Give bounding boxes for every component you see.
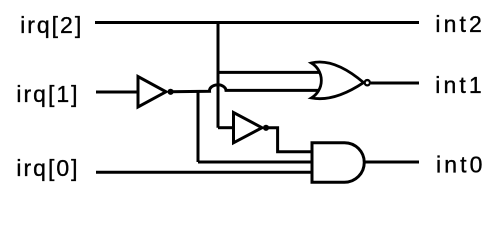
svg-text:irq[0]: irq[0]: [16, 155, 79, 181]
svg-text:int0: int0: [436, 151, 485, 177]
svg-text:int1: int1: [435, 72, 484, 98]
inverter U2 (middle): [234, 113, 270, 143]
wire U2 output to AND top input: [266, 128, 313, 152]
svg-text:irq[1]: irq[1]: [16, 81, 79, 107]
wire irq[2] vertical branch: [217, 23, 220, 128]
NOR gate U3 (output int1): [311, 62, 370, 99]
wire AND output to int0: [364, 161, 419, 164]
wire NOR top input from irq[2] branch: [218, 71, 320, 74]
wire U1 output branch down (to AND middle input): [197, 92, 200, 162]
wire U2 input from vertical branch: [218, 126, 234, 129]
wire AND middle input horizontal: [198, 161, 313, 164]
AND gate U4 (output int0): [312, 143, 364, 183]
inverter U1 (irq[1]): [138, 77, 174, 108]
wire irq[0] to AND bottom input: [96, 171, 313, 174]
wire irq[1] to inverter U1: [96, 91, 137, 94]
wire U1 output with hop over vertical branch: [170, 85, 321, 92]
svg-text:int2: int2: [435, 11, 484, 37]
svg-text:irq[2]: irq[2]: [20, 12, 83, 38]
wire irq[2] net (horizontal, to int2): [95, 21, 419, 24]
wire NOR output to int1: [371, 82, 419, 85]
